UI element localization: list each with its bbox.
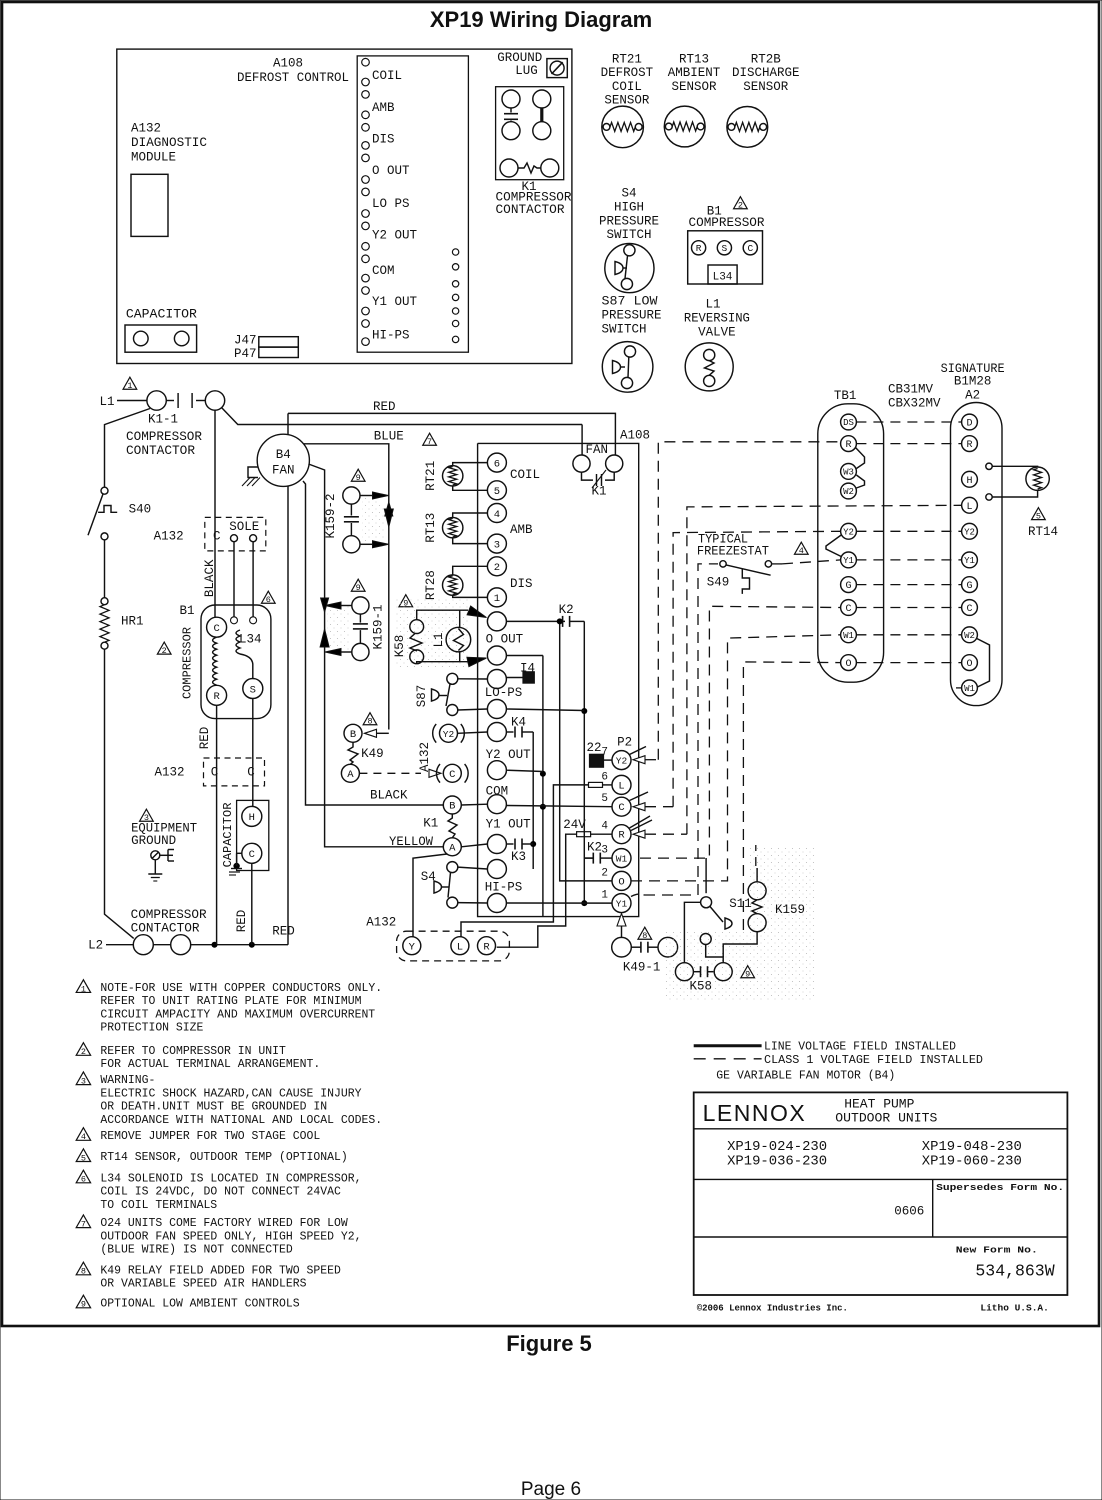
board A108 mid outline xyxy=(478,443,639,916)
nameplate new form row xyxy=(956,1244,1055,1280)
svg-text:K1: K1 xyxy=(423,817,438,831)
K1-1 compressor contactor label xyxy=(126,413,203,459)
svg-text:CAPACITOR: CAPACITOR xyxy=(221,803,235,868)
equipment ground stack xyxy=(148,860,162,881)
module A132 body xyxy=(131,174,168,236)
capacitor C7 label vertical xyxy=(221,803,235,868)
svg-text:PRESSURE: PRESSURE xyxy=(602,308,662,322)
pin labels xyxy=(372,69,418,343)
class II wire Y1 branch xyxy=(631,564,718,897)
S87 low pressure switch xyxy=(602,342,653,393)
svg-text:(BLUE WIRE) IS NOT CONNECTED: (BLUE WIRE) IS NOT CONNECTED xyxy=(100,1243,292,1257)
svg-text:L34: L34 xyxy=(713,272,733,284)
sensor RT21 xyxy=(602,106,644,148)
svg-text:J47: J47 xyxy=(234,334,257,348)
svg-text:Y1: Y1 xyxy=(964,556,975,566)
contact K58 bottom xyxy=(675,963,732,981)
svg-text:FAN: FAN xyxy=(585,443,608,457)
warning 2 left xyxy=(157,642,171,656)
A132 label plug strip xyxy=(366,916,396,930)
svg-text:A132: A132 xyxy=(366,916,396,930)
svg-text:K159-2: K159-2 xyxy=(324,493,338,538)
note 1 text xyxy=(100,981,382,1035)
svg-text:1: 1 xyxy=(81,984,86,994)
sensor label RT21 xyxy=(601,53,654,108)
note 8 triangle xyxy=(76,1262,90,1277)
ground lug label xyxy=(497,51,542,78)
terminal S xyxy=(717,241,731,255)
sensor RT2B xyxy=(727,107,768,148)
relay K159 right xyxy=(748,845,805,932)
svg-text:New Form No.: New Form No. xyxy=(956,1244,1038,1255)
svg-text:534,863W: 534,863W xyxy=(975,1261,1054,1280)
svg-text:AMB: AMB xyxy=(510,523,533,537)
wire L2 red run xyxy=(191,942,288,948)
sensor label RT13 xyxy=(668,53,721,94)
svg-text:C: C xyxy=(449,769,455,781)
equipment ground label xyxy=(131,822,197,849)
wire COM row xyxy=(506,770,543,771)
note 2 triangle xyxy=(76,1043,90,1058)
svg-text:5: 5 xyxy=(81,1153,86,1163)
svg-text:Y1 OUT: Y1 OUT xyxy=(372,295,418,309)
node L1 xyxy=(99,395,146,409)
wire black K1-1 to B1 xyxy=(214,410,216,617)
svg-text:RT2B: RT2B xyxy=(751,53,782,67)
svg-text:BLACK: BLACK xyxy=(370,789,408,803)
svg-text:7: 7 xyxy=(427,437,432,447)
compressor contactor label lower xyxy=(131,908,208,936)
svg-text:SENSOR: SENSOR xyxy=(743,80,789,94)
svg-text:6: 6 xyxy=(494,458,500,470)
warning 6 xyxy=(261,591,275,605)
svg-text:Y2: Y2 xyxy=(443,729,455,740)
arrow into Y1 xyxy=(617,914,626,938)
svg-text:COMPRESSOR: COMPRESSOR xyxy=(126,430,203,444)
svg-text:2: 2 xyxy=(494,562,500,574)
svg-text:RT13: RT13 xyxy=(679,53,709,67)
spare pins right column xyxy=(452,249,458,343)
svg-text:R: R xyxy=(483,941,490,953)
sensor RT13 mid xyxy=(424,513,463,543)
terminal C xyxy=(743,241,757,255)
S4 high pressure switch label xyxy=(599,187,659,243)
TB1 terminal Y2 xyxy=(841,523,857,539)
TB1 jumper Y2-Y1 xyxy=(826,535,841,557)
svg-text:RT21: RT21 xyxy=(612,53,642,67)
heater HR1 xyxy=(100,598,144,650)
B1 terminal R xyxy=(207,685,227,705)
freezestat S49 label xyxy=(697,532,769,589)
svg-text:R: R xyxy=(966,440,972,451)
svg-text:COIL IS 24VDC, DO NOT CONNECT: COIL IS 24VDC, DO NOT CONNECT 24VAC xyxy=(100,1185,341,1199)
svg-text:GROUND: GROUND xyxy=(131,834,176,848)
K159-1 label xyxy=(372,604,386,649)
plug P2 pin W1 xyxy=(601,845,631,868)
freezestat S49 switch xyxy=(720,560,841,594)
board terminal row 3 xyxy=(487,670,506,689)
nameplate supersedes row xyxy=(694,1179,1068,1237)
svg-text:C: C xyxy=(845,604,851,615)
wire HI-PS to P2 Y1 xyxy=(506,902,612,904)
svg-text:K4: K4 xyxy=(511,716,526,730)
svg-text:9: 9 xyxy=(356,473,361,483)
svg-text:4: 4 xyxy=(494,509,500,521)
svg-text:COMPRESSOR: COMPRESSOR xyxy=(181,627,195,699)
compressor B1 shell xyxy=(201,605,271,719)
svg-text:5: 5 xyxy=(1036,512,1041,522)
svg-text:RT14 SENSOR, OUTDOOR TEMP (OPT: RT14 SENSOR, OUTDOOR TEMP (OPTIONAL) xyxy=(100,1150,347,1164)
relay K159-1 xyxy=(352,597,369,661)
svg-text:K49-1: K49-1 xyxy=(623,960,661,974)
svg-text:DS: DS xyxy=(843,418,854,428)
wire L1 drop xyxy=(105,409,151,488)
svg-text:9: 9 xyxy=(356,583,361,593)
wire to RT14 top xyxy=(992,465,1037,468)
K159-2 label xyxy=(324,493,338,538)
control box A108 outline xyxy=(117,49,572,363)
stipple K159-1 xyxy=(327,602,350,655)
red label top xyxy=(373,400,396,414)
svg-text:W1: W1 xyxy=(616,854,628,865)
svg-text:OUTDOOR UNITS: OUTDOOR UNITS xyxy=(835,1111,937,1126)
plug P2 pin L xyxy=(601,771,631,794)
black label mid xyxy=(370,789,408,803)
red label horizontal xyxy=(272,925,295,939)
svg-text:22: 22 xyxy=(586,741,601,755)
svg-text:R: R xyxy=(213,691,220,703)
svg-text:1: 1 xyxy=(601,890,608,902)
plug A132 C mid xyxy=(436,764,468,783)
wire B row to P2 C xyxy=(506,806,612,807)
svg-text:SENSOR: SENSOR xyxy=(604,94,650,108)
warning 9 bottom xyxy=(741,966,755,980)
plug R xyxy=(478,937,496,955)
fan ground xyxy=(242,467,260,486)
nameplate header row xyxy=(694,1097,1068,1129)
svg-text:8: 8 xyxy=(642,931,647,941)
class II wire L to A2 xyxy=(633,505,962,838)
svg-text:A108: A108 xyxy=(273,57,303,71)
B1 terminal C xyxy=(207,617,227,637)
B1 terminal S xyxy=(243,679,263,699)
svg-text:DEFROST: DEFROST xyxy=(601,66,654,80)
svg-text:AMBIENT: AMBIENT xyxy=(668,66,721,80)
svg-text:HR1: HR1 xyxy=(121,615,144,629)
capacitor label xyxy=(126,308,198,322)
svg-text:B1M28: B1M28 xyxy=(954,375,992,389)
wires mid board vertical v6 xyxy=(497,834,577,947)
svg-text:8: 8 xyxy=(367,717,372,727)
fan K1 contact xyxy=(582,470,615,498)
RT14 pigtail terminals xyxy=(986,463,992,500)
svg-text:XP19-036-230: XP19-036-230 xyxy=(727,1154,827,1169)
page number xyxy=(521,1479,581,1500)
A2 terminal D xyxy=(962,414,978,430)
svg-text:W1: W1 xyxy=(964,684,975,694)
warning 4 xyxy=(794,542,808,556)
svg-text:K1: K1 xyxy=(591,484,606,498)
compressor B1 terminal box xyxy=(688,231,763,284)
plug P2 pin Y2 xyxy=(601,747,631,770)
TB1 terminal DS xyxy=(841,414,857,430)
svg-text:CIRCUIT AMPACITY AND MAXIMUM O: CIRCUIT AMPACITY AND MAXIMUM OVERCURRENT xyxy=(100,1007,375,1021)
red label vertical capacitor wire xyxy=(235,910,249,933)
A2 terminal R xyxy=(962,436,978,452)
svg-text:W2: W2 xyxy=(964,631,975,641)
svg-text:R: R xyxy=(618,830,625,842)
TB1 terminal Y1 xyxy=(841,552,857,568)
svg-text:TO COIL TERMINALS: TO COIL TERMINALS xyxy=(100,1198,217,1212)
svg-text:FOR ACTUAL TERMINAL ARRANGEMEN: FOR ACTUAL TERMINAL ARRANGEMENT. xyxy=(100,1057,320,1071)
black label vertical xyxy=(203,559,217,597)
svg-text:L34: L34 xyxy=(239,633,262,647)
wire K159 down xyxy=(723,932,757,957)
sensor label RT2B xyxy=(732,53,800,94)
svg-text:A2: A2 xyxy=(965,389,980,403)
warning 1 xyxy=(123,377,137,391)
warning 9 K159-1 xyxy=(351,579,365,593)
wire S drop xyxy=(252,699,254,807)
contactor K1 box xyxy=(496,87,564,180)
S87 low pressure switch label xyxy=(602,295,662,337)
svg-text:2: 2 xyxy=(162,646,167,656)
svg-text:A132: A132 xyxy=(131,122,161,136)
svg-text:LINE VOLTAGE FIELD INSTALLED: LINE VOLTAGE FIELD INSTALLED xyxy=(764,1040,956,1054)
svg-text:A: A xyxy=(449,842,456,854)
K49-1 label xyxy=(623,960,661,974)
board terminal row 1 xyxy=(487,612,506,631)
wire HR1 to L2 xyxy=(105,649,134,938)
A2 terminal G xyxy=(962,577,978,593)
svg-text:K2: K2 xyxy=(587,841,602,855)
svg-text:A: A xyxy=(347,769,354,781)
legend class II voltage xyxy=(694,1053,983,1067)
A108 defrost control label xyxy=(237,57,349,86)
board pin 4 xyxy=(487,504,506,523)
terminal R xyxy=(692,241,706,255)
nameplate models row xyxy=(694,1140,1068,1179)
relay K1 coil mid xyxy=(423,814,457,838)
legend line voltage xyxy=(694,1040,956,1054)
svg-text:8: 8 xyxy=(81,1267,86,1277)
svg-text:Figure 5: Figure 5 xyxy=(506,1331,592,1356)
contact K3 xyxy=(506,839,533,865)
plug Y xyxy=(403,937,421,955)
blue label xyxy=(374,429,404,443)
svg-text:1: 1 xyxy=(494,593,500,605)
svg-text:Supersedes Form No.: Supersedes Form No. xyxy=(936,1182,1064,1193)
svg-text:9: 9 xyxy=(745,970,750,980)
svg-text:CAPACITOR: CAPACITOR xyxy=(126,308,198,322)
svg-text:MODULE: MODULE xyxy=(131,151,176,165)
svg-text:Y2 OUT: Y2 OUT xyxy=(486,748,532,762)
svg-text:P47: P47 xyxy=(234,347,257,361)
plug B blue xyxy=(344,724,389,742)
K1 pole with thick link xyxy=(533,90,551,140)
svg-text:LO PS: LO PS xyxy=(372,197,410,211)
plug A132 C-C dashed xyxy=(154,758,264,786)
I4 indicator xyxy=(506,661,535,683)
svg-text:A132: A132 xyxy=(154,530,184,544)
svg-text:1: 1 xyxy=(127,381,132,391)
svg-text:AMB: AMB xyxy=(372,101,395,115)
A2 terminal H xyxy=(962,471,978,487)
compressor B1 left label xyxy=(179,604,194,618)
A132 label vertical mid xyxy=(418,742,432,772)
svg-text:RED: RED xyxy=(272,925,295,939)
plug L xyxy=(451,937,469,955)
svg-text:C: C xyxy=(247,766,255,780)
svg-text:A108: A108 xyxy=(620,429,650,443)
board terminal row 5 xyxy=(487,723,506,742)
svg-text:RT28: RT28 xyxy=(424,570,438,600)
wires mid board vertical v2 xyxy=(540,656,546,917)
svg-text:K1-1: K1-1 xyxy=(148,413,178,427)
svg-text:S: S xyxy=(722,243,728,254)
svg-text:COIL: COIL xyxy=(612,80,642,94)
TB1 jumper W3-W2 xyxy=(856,475,864,488)
warning 9 K58 xyxy=(399,595,413,609)
svg-text:Y2: Y2 xyxy=(616,756,628,767)
class II wire W1 branch xyxy=(631,635,841,881)
svg-text:HI-PS: HI-PS xyxy=(372,329,410,343)
svg-text:PRESSURE: PRESSURE xyxy=(599,214,659,228)
svg-text:2: 2 xyxy=(738,201,743,211)
plug A yellow xyxy=(443,838,487,856)
svg-text:W2: W2 xyxy=(843,487,854,497)
svg-text:S49: S49 xyxy=(707,575,730,589)
yellow label xyxy=(389,835,433,849)
A2 jumper W2-W1 xyxy=(977,639,990,688)
svg-text:FREEZESTAT: FREEZESTAT xyxy=(697,545,769,559)
CB31MV CBX32MV label xyxy=(888,383,941,411)
svg-text:L34 SOLENOID IS LOCATED IN COM: L34 SOLENOID IS LOCATED IN COMPRESSOR, xyxy=(100,1171,361,1185)
wire fan to red riser xyxy=(287,413,289,434)
fan plug circles xyxy=(573,443,623,472)
arrows into O OUT xyxy=(467,606,488,667)
compressor B1 label with warning 2 xyxy=(689,197,766,230)
svg-text:SWITCH: SWITCH xyxy=(602,322,647,336)
warning 5 RT14 label xyxy=(1028,508,1058,539)
svg-text:R: R xyxy=(696,243,702,254)
wires mid board vertical v1 xyxy=(530,732,536,869)
svg-text:6: 6 xyxy=(601,771,608,783)
wire blue xyxy=(304,444,389,730)
svg-text:SOLE: SOLE xyxy=(229,520,259,534)
switch S40 xyxy=(88,487,151,540)
svg-text:K2: K2 xyxy=(559,603,574,617)
board terminal row 2 xyxy=(487,646,506,665)
TB1 terminal W3 xyxy=(841,464,857,480)
svg-text:LUG: LUG xyxy=(515,64,538,78)
note 5 triangle xyxy=(76,1149,90,1164)
svg-text:COM: COM xyxy=(486,785,509,799)
L1 label vertical xyxy=(432,632,446,647)
wire black drop from fan xyxy=(303,481,443,805)
S4 high pressure switch xyxy=(605,244,654,293)
wire to RT14 bottom xyxy=(992,491,1037,498)
svg-text:DIS: DIS xyxy=(372,133,395,147)
wire capacitor C drop red xyxy=(251,863,253,944)
B1 rotated compressor label xyxy=(181,627,195,699)
board pin 3 xyxy=(487,534,506,553)
L1 reversing valve label xyxy=(684,298,750,340)
wire R red drop xyxy=(216,705,218,944)
sensor RT13 xyxy=(664,106,705,147)
svg-text:ACCORDANCE WITH NATIONAL AND L: ACCORDANCE WITH NATIONAL AND LOCAL CODES… xyxy=(100,1113,382,1127)
svg-text:SWITCH: SWITCH xyxy=(606,228,651,242)
svg-text:RED: RED xyxy=(373,400,396,414)
thermostat A2 label xyxy=(941,362,1005,403)
svg-text:COM: COM xyxy=(372,264,395,278)
svg-text:2: 2 xyxy=(601,867,608,879)
svg-text:OUTDOOR FAN SPEED ONLY, HIGH S: OUTDOOR FAN SPEED ONLY, HIGH SPEED Y2, xyxy=(100,1229,361,1243)
plug Y2 mid xyxy=(433,724,465,743)
svg-text:ELECTRIC SHOCK HAZARD,CAN CAUS: ELECTRIC SHOCK HAZARD,CAN CAUSE INJURY xyxy=(100,1086,362,1100)
K58 L1 link wires xyxy=(417,610,468,664)
sensor RT21 mid xyxy=(424,461,463,491)
svg-text:5: 5 xyxy=(601,793,608,805)
wires mid board vertical v4 xyxy=(581,621,587,906)
capacitor terminal H xyxy=(242,806,262,826)
svg-text:G: G xyxy=(966,581,972,592)
svg-text:BLUE: BLUE xyxy=(374,429,404,443)
L1 reversing valve xyxy=(685,343,733,391)
plug strip A132 dashed box xyxy=(397,931,510,961)
note 5 text xyxy=(100,1150,347,1164)
L1 solenoid circle xyxy=(446,627,471,652)
svg-text:5: 5 xyxy=(494,486,500,498)
svg-text:CONTACTOR: CONTACTOR xyxy=(131,922,201,936)
board terminal row 9 xyxy=(487,860,506,879)
sensor RT14 xyxy=(1026,467,1049,490)
svg-text:K49 RELAY FIELD ADDED FOR TWO: K49 RELAY FIELD ADDED FOR TWO SPEED xyxy=(100,1263,341,1277)
board terminal row 7 xyxy=(487,795,506,814)
resistor 24V xyxy=(577,832,612,837)
svg-text:C: C xyxy=(618,802,624,814)
TB1 jumper R-W3 xyxy=(856,448,865,469)
svg-text:Litho U.S.A.: Litho U.S.A. xyxy=(980,1302,1048,1313)
svg-text:S87: S87 xyxy=(415,685,429,708)
plug P2 pin C xyxy=(601,793,631,816)
capacitor internal ground xyxy=(229,853,242,875)
warning 9 K159-2 xyxy=(351,469,365,483)
svg-text:COIL: COIL xyxy=(372,69,402,83)
svg-text:9: 9 xyxy=(81,1300,86,1310)
plug A132 SOLE dashed box xyxy=(154,517,266,551)
svg-text:Y1: Y1 xyxy=(843,556,854,566)
svg-text:OPTIONAL LOW AMBIENT CONTROLS: OPTIONAL LOW AMBIENT CONTROLS xyxy=(100,1296,299,1310)
svg-text:O: O xyxy=(966,659,972,670)
svg-text:REVERSING: REVERSING xyxy=(684,311,750,325)
svg-text:6: 6 xyxy=(266,595,271,605)
note 7 text xyxy=(100,1216,361,1257)
svg-text:B: B xyxy=(449,801,455,813)
TB1 terminal W2 xyxy=(841,483,857,499)
svg-text:K3: K3 xyxy=(511,850,526,864)
svg-text:D: D xyxy=(966,419,972,430)
svg-text:HIGH: HIGH xyxy=(614,200,644,214)
svg-text:O OUT: O OUT xyxy=(372,164,410,178)
A108 bottom exit wires xyxy=(477,916,479,918)
svg-text:A132: A132 xyxy=(418,742,432,772)
svg-text:VALVE: VALVE xyxy=(698,325,736,339)
svg-text:2: 2 xyxy=(81,1047,86,1057)
resistor L feed xyxy=(589,782,613,787)
warning 3 xyxy=(140,809,154,823)
svg-text:K159: K159 xyxy=(775,903,805,917)
